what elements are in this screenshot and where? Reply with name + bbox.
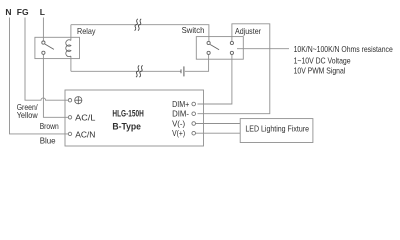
svg-text:FG: FG xyxy=(17,7,29,17)
svg-text:AC/L: AC/L xyxy=(75,113,95,123)
svg-text:Adjuster: Adjuster xyxy=(235,26,261,36)
svg-text:10V PWM Signal: 10V PWM Signal xyxy=(294,65,346,75)
svg-text:LED Lighting Fixture: LED Lighting Fixture xyxy=(245,124,309,134)
svg-text:Yellow: Yellow xyxy=(17,110,39,120)
svg-text:10K/N~100K/N Ohms resistance: 10K/N~100K/N Ohms resistance xyxy=(294,44,393,54)
svg-text:1~10V DC Voltage: 1~10V DC Voltage xyxy=(294,55,351,65)
svg-text:V(+): V(+) xyxy=(172,128,185,138)
svg-text:L: L xyxy=(40,7,45,17)
svg-text:DIM-: DIM- xyxy=(172,109,189,119)
svg-text:V(-): V(-) xyxy=(172,118,185,128)
svg-text:AC/N: AC/N xyxy=(75,129,95,139)
svg-text:N: N xyxy=(5,7,11,17)
svg-text:Switch: Switch xyxy=(182,25,205,35)
svg-text:Blue: Blue xyxy=(40,136,56,146)
svg-text:B-Type: B-Type xyxy=(112,121,141,131)
svg-text:Brown: Brown xyxy=(40,121,59,131)
svg-text:DIM+: DIM+ xyxy=(172,99,189,109)
svg-text:Relay: Relay xyxy=(77,26,96,36)
svg-text:HLG-150H: HLG-150H xyxy=(112,108,143,118)
